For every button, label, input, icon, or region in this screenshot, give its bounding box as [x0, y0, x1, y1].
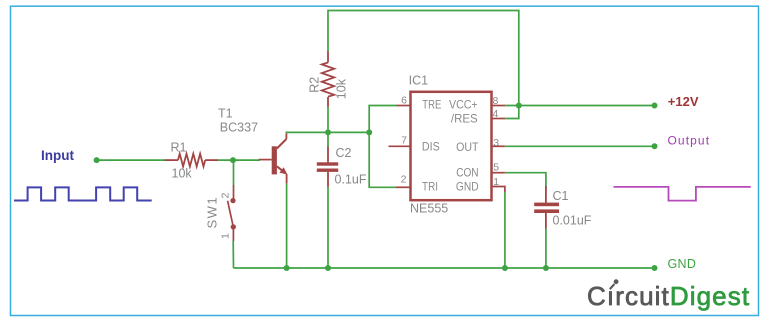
node C2 junction [325, 265, 331, 271]
wire top rail [328, 11, 519, 106]
resistor R2 [322, 51, 334, 107]
svg-text:Input: Input [41, 148, 74, 163]
wire SW1 to bottom rail [232, 241, 234, 268]
svg-text:IC1: IC1 [409, 73, 429, 87]
node C1 junction [543, 265, 549, 271]
svg-text:DIS: DIS [422, 141, 440, 154]
pin 8 stub [491, 105, 505, 107]
svg-text:8: 8 [493, 95, 499, 107]
logo i accent dot [614, 279, 619, 284]
svg-text:R2: R2 [307, 77, 321, 93]
input square wave [14, 187, 152, 200]
svg-text:TRE: TRE [422, 99, 441, 112]
wire bottom rail [234, 267, 655, 269]
node junction TRI/TRE branch [366, 129, 372, 135]
capacitor C2 [317, 132, 338, 268]
svg-text:+12V: +12V [668, 94, 699, 109]
wire R2 bottom to node [327, 107, 329, 132]
wire pin8 to +12V [505, 105, 654, 107]
pin 1 GND stub [491, 187, 505, 193]
resistor R1 [165, 154, 219, 167]
svg-text:1: 1 [220, 233, 232, 239]
node junction C2/R2 top [325, 129, 331, 135]
transistor T1 body [272, 133, 288, 183]
pin 2 TRI stub [396, 186, 411, 188]
svg-text:3: 3 [493, 137, 499, 149]
svg-text:2: 2 [401, 173, 407, 185]
pin 6 TRE stub [397, 105, 411, 107]
node GND dot [652, 265, 658, 271]
svg-text:6: 6 [401, 94, 407, 106]
output waveform [614, 187, 751, 201]
svg-text:NE555: NE555 [410, 202, 448, 216]
logo CircuitDigest [587, 281, 750, 311]
svg-text:10k: 10k [335, 78, 349, 99]
wire node to node [328, 131, 369, 133]
wire junction down to SW1 [233, 160, 235, 185]
svg-text:7: 7 [401, 134, 407, 146]
wire to pin 6 TRE [369, 106, 396, 133]
node +12V dot [652, 103, 658, 109]
wire Input to R1 [97, 159, 165, 161]
svg-text:0.1uF: 0.1uF [335, 172, 367, 186]
switch SW1 [228, 185, 236, 241]
svg-text:10k: 10k [172, 166, 193, 180]
svg-text:2: 2 [220, 193, 232, 199]
svg-text:SW1: SW1 [205, 196, 220, 229]
svg-text:OUT: OUT [456, 141, 478, 154]
transistor T1 base lead [259, 159, 272, 161]
svg-text:VCC+: VCC+ [449, 99, 478, 112]
pin 3 OUT stub [491, 145, 505, 147]
svg-text:0.01uF: 0.01uF [553, 213, 592, 227]
svg-text:CON: CON [456, 166, 478, 179]
wire pin1 down to bottom rail [504, 192, 506, 268]
svg-text:C2: C2 [336, 146, 352, 160]
wire junction to pin 4 [505, 106, 519, 119]
svg-text:/RES: /RES [451, 112, 478, 125]
svg-text:GND: GND [668, 257, 697, 271]
svg-text:1: 1 [493, 176, 499, 188]
pin 4 stub [491, 118, 505, 120]
node pin1 junction [502, 265, 508, 271]
wire pin5 to C1 [505, 173, 546, 188]
svg-text:Output: Output [668, 134, 711, 148]
svg-text:C1: C1 [553, 189, 569, 203]
svg-text:TRI: TRI [422, 181, 438, 194]
capacitor C1 [534, 186, 559, 268]
svg-text:BC337: BC337 [220, 121, 258, 135]
logo i accent line [610, 284, 615, 289]
svg-text:4: 4 [493, 108, 499, 120]
node junction pin8/pin4 [516, 103, 522, 109]
wire to pin 2 TRI [369, 132, 396, 187]
svg-text:CırcuitDigest: CırcuitDigest [587, 281, 750, 311]
wire R1 to junction to T1 base [218, 159, 260, 161]
svg-text:T1: T1 [218, 107, 233, 121]
svg-text:5: 5 [493, 161, 499, 173]
svg-text:GND: GND [456, 181, 479, 194]
wire collector to C2/R2 node [286, 132, 328, 133]
node junction at SW1 top [230, 157, 236, 163]
op IC1 NE555 box [411, 92, 492, 200]
node Input dot [94, 157, 100, 163]
node emitter junction [284, 265, 290, 271]
wire pin3 to Output [505, 145, 655, 147]
pin 5 CON stub [491, 172, 505, 174]
svg-text:R1: R1 [171, 141, 187, 155]
wire emitter down to bottom rail [286, 184, 288, 268]
node Output dot [652, 143, 658, 149]
pin 7 DIS stub [389, 145, 411, 147]
